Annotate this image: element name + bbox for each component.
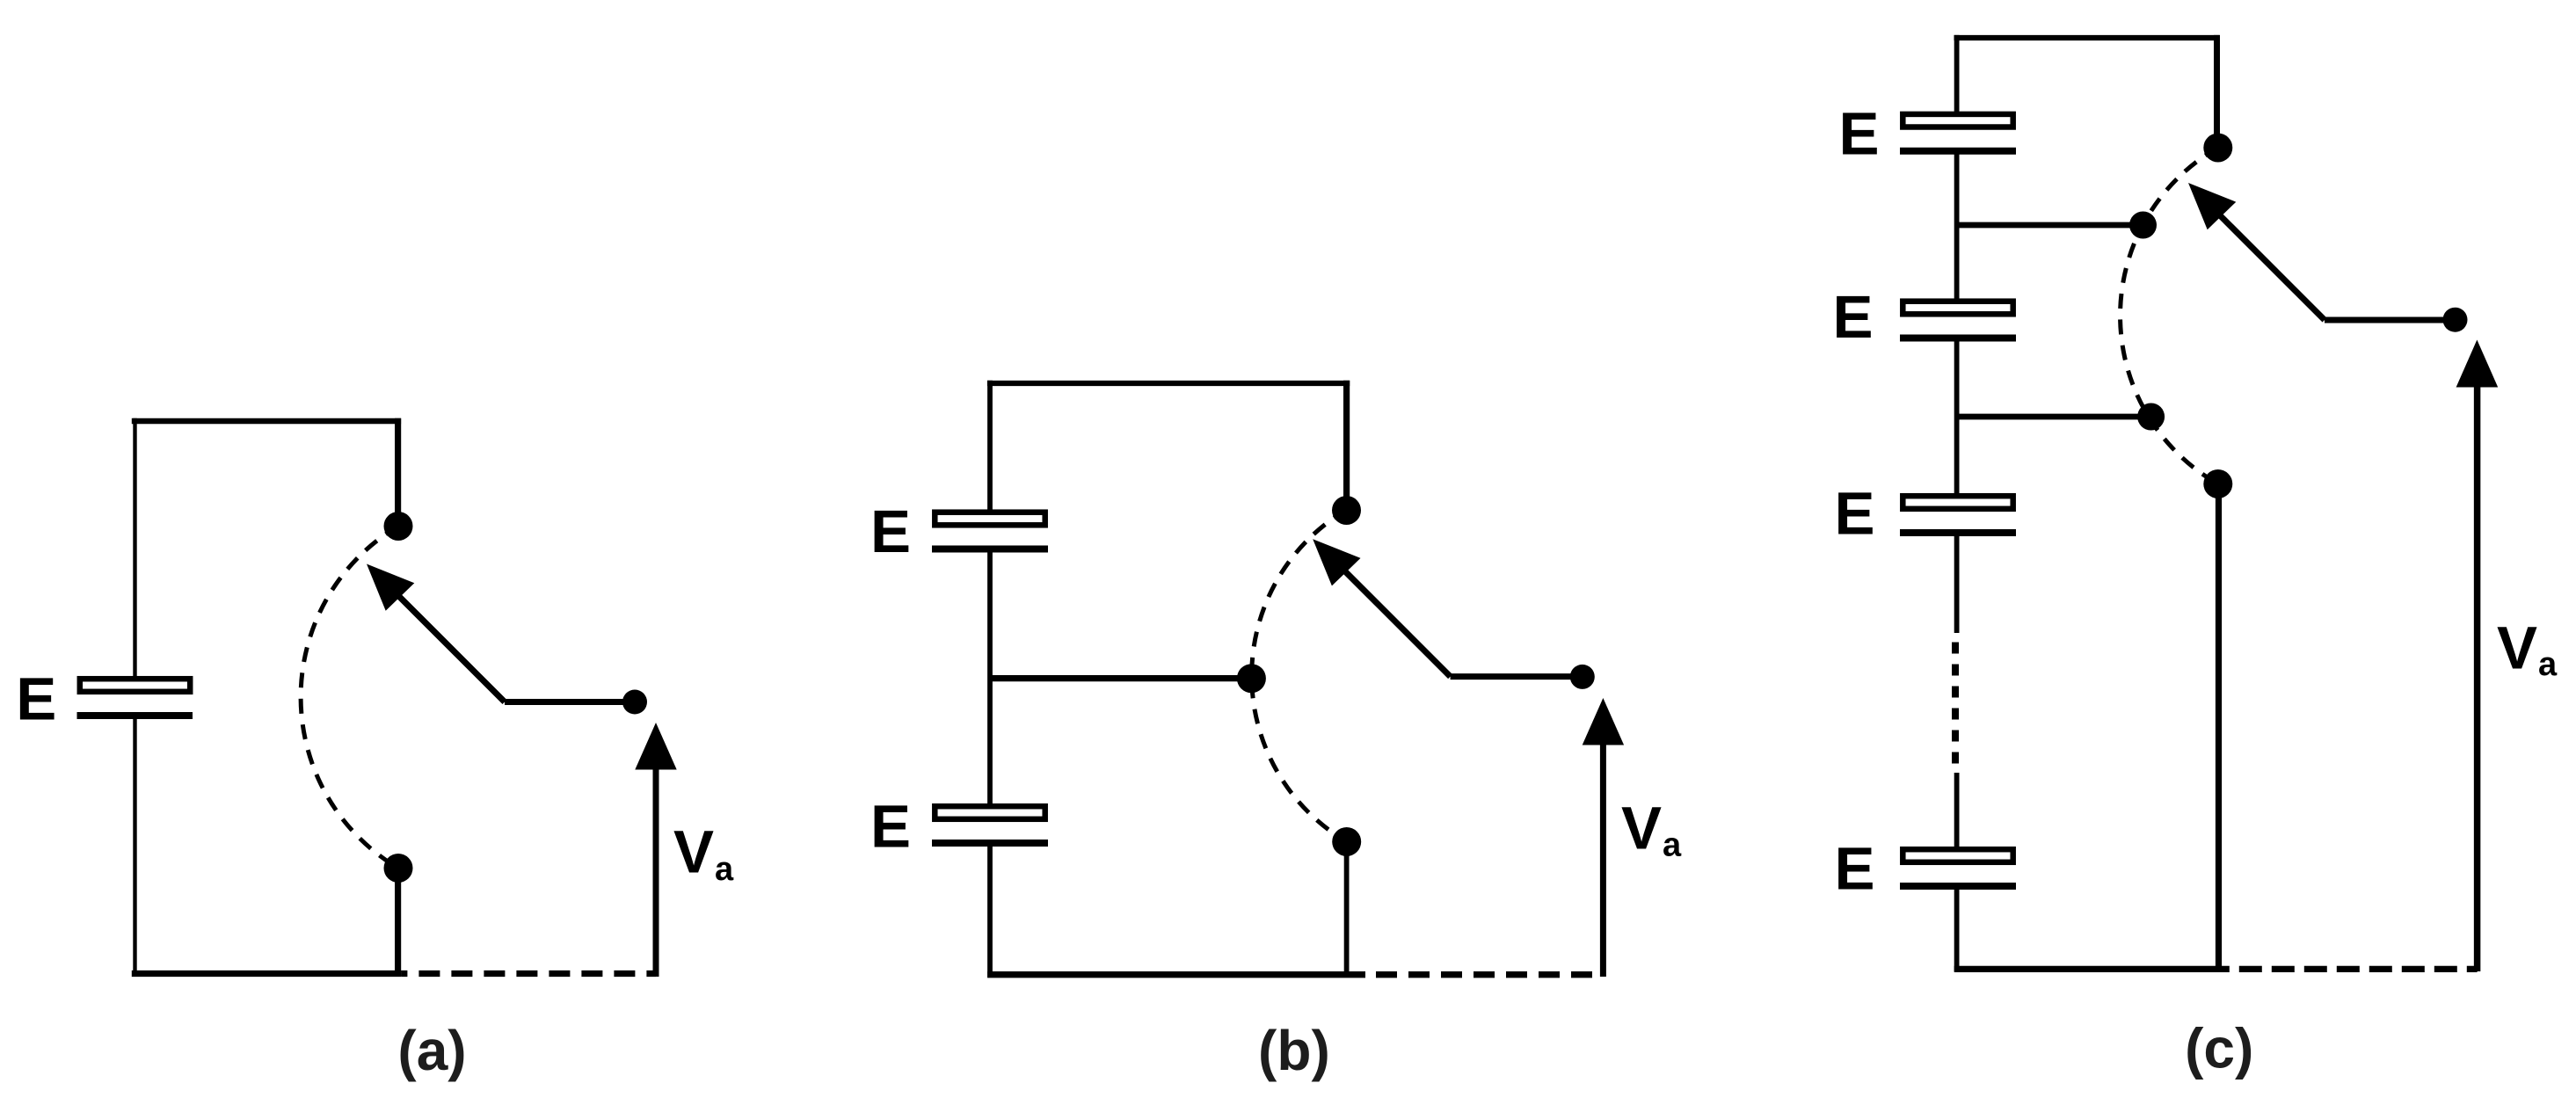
wire: (c) top horizontal bbox=[1954, 35, 2220, 40]
switch arm of (b) bbox=[1342, 568, 1451, 677]
svg-text:E: E bbox=[1835, 480, 1875, 548]
switch pole wire of (c) bbox=[2325, 317, 2456, 324]
switch arm of (a) bbox=[395, 592, 505, 702]
svg-text:E: E bbox=[1835, 835, 1875, 903]
wire: (c) long vertical from node N down to bottom wire bbox=[2216, 484, 2222, 973]
node dot 2 of (c) bbox=[2129, 212, 2157, 239]
wire: (b) left vertical middle (between E1 and E2) bbox=[987, 549, 993, 804]
node P (top contact dot) of (c) bbox=[2203, 134, 2232, 163]
source E2 (battery plates) of (c) bbox=[1903, 302, 2012, 315]
wire: (b) vertical from node N down to bottom wire bbox=[1344, 842, 1350, 978]
Va arrow stem of (c) bbox=[2474, 385, 2481, 971]
svg-text:a: a bbox=[2538, 646, 2558, 683]
switch arm arrowhead of (b) bbox=[1313, 539, 1360, 585]
Va arrowhead of (c) bbox=[2456, 340, 2499, 388]
wire: (c) right vertical from top wire to node P bbox=[2214, 35, 2220, 148]
svg-text:E: E bbox=[870, 498, 911, 565]
source E4 (battery plates) of (c) bbox=[1903, 849, 2012, 862]
wire: (c) left vertical to source E1 bbox=[1954, 35, 1960, 114]
switch throw arc (dashed) of (c) bbox=[2121, 148, 2218, 484]
svg-text:V: V bbox=[1621, 795, 1662, 862]
Va arrowhead of (b) bbox=[1583, 698, 1624, 745]
wire: (c) junction J1 horizontal to node dot 2 bbox=[1957, 222, 2143, 229]
source E (battery plates) of (a) bbox=[80, 679, 190, 692]
switch throw arc (dashed) of (b) bbox=[1252, 510, 1347, 842]
wire: (c) left vertical between E1 and E2 (junction J1) bbox=[1954, 151, 1960, 302]
svg-text:E: E bbox=[1833, 283, 1874, 351]
wire: (a) bottom dashed return to output bbox=[401, 971, 656, 977]
wire: (b) right vertical from top wire to node P bbox=[1343, 381, 1350, 511]
wire: (c) bottom horizontal solid bbox=[1954, 966, 2230, 972]
wire: (b) left vertical upper (to source E1) bbox=[987, 381, 993, 511]
switch arm arrowhead of (c) bbox=[2188, 183, 2236, 229]
output node dot of (a) bbox=[622, 690, 647, 715]
wire: (b) left vertical lower (below E2) bbox=[987, 844, 993, 978]
wire: (c) bottom dashed return to output bbox=[2230, 966, 2478, 972]
switch throw arc (dashed) of (a) bbox=[301, 527, 398, 869]
svg-text:(c): (c) bbox=[2185, 1017, 2253, 1080]
wire: (c) left vertical above source E4 bbox=[1954, 773, 1960, 850]
svg-text:a: a bbox=[1663, 827, 1682, 864]
wire: (c) left vertical dashed continuation bbox=[1952, 643, 1959, 774]
svg-text:(b): (b) bbox=[1258, 1019, 1330, 1082]
wire: (c) left vertical between E2 and E3 (junction J2) bbox=[1954, 338, 1960, 496]
Va arrowhead of (a) bbox=[635, 723, 676, 770]
output node dot of (b) bbox=[1570, 665, 1595, 689]
svg-text:E: E bbox=[16, 665, 56, 733]
node N (bottom contact dot) of (b) bbox=[1332, 827, 1361, 856]
wire: (b) top horizontal bbox=[987, 381, 1350, 386]
wire: (c) left vertical below E3 (solid part) bbox=[1954, 533, 1960, 633]
svg-text:(a): (a) bbox=[397, 1019, 466, 1082]
wire: (c) junction J2 horizontal to node dot 3 bbox=[1957, 414, 2151, 420]
switch pole wire of (a) bbox=[505, 699, 635, 705]
svg-text:a: a bbox=[715, 851, 734, 888]
switch arm arrowhead of (a) bbox=[367, 564, 414, 611]
node dot 3 of (c) bbox=[2137, 403, 2165, 431]
wire: (a) vertical from node N down to bottom wire bbox=[395, 869, 401, 977]
node P (top contact dot) of (b) bbox=[1332, 496, 1361, 525]
source E3 (battery plates) of (c) bbox=[1903, 496, 2012, 509]
wire: (b) bottom dashed return to output bbox=[1365, 971, 1603, 978]
svg-text:V: V bbox=[2497, 614, 2537, 682]
switch pole wire of (b) bbox=[1451, 673, 1583, 680]
switch arm of (c) bbox=[2216, 212, 2325, 320]
source E2 (battery plates) of (b) bbox=[935, 806, 1044, 819]
wire: (a) left vertical lower (from source E minus plate) bbox=[133, 718, 136, 976]
wire: (a) bottom horizontal solid bbox=[132, 971, 402, 977]
svg-text:E: E bbox=[1839, 99, 1880, 167]
svg-text:V: V bbox=[673, 818, 714, 886]
wire: (c) left vertical below source E4 bbox=[1954, 886, 1960, 971]
node O (middle contact dot) of (b) bbox=[1237, 664, 1266, 693]
wire: (a) left vertical upper (to source E plus plate) bbox=[133, 418, 136, 677]
Va arrow stem of (b) bbox=[1600, 743, 1606, 977]
wire: (b) middle horizontal to node O bbox=[990, 675, 1251, 681]
source E1 (battery plates) of (c) bbox=[1903, 114, 2012, 127]
wire: (a) top horizontal bbox=[132, 418, 401, 424]
source E1 (battery plates) of (b) bbox=[935, 513, 1044, 526]
node N (bottom contact dot) of (a) bbox=[384, 854, 413, 883]
output node dot of (c) bbox=[2443, 308, 2468, 332]
node P (top contact dot) of (a) bbox=[384, 512, 413, 541]
Va arrow stem of (a) bbox=[653, 767, 659, 977]
node N (bottom contact dot) of (c) bbox=[2203, 469, 2232, 498]
wire: (a) right vertical from top wire to node P bbox=[395, 418, 401, 527]
svg-text:E: E bbox=[870, 793, 911, 861]
wire: (b) bottom horizontal solid bbox=[987, 971, 1365, 978]
